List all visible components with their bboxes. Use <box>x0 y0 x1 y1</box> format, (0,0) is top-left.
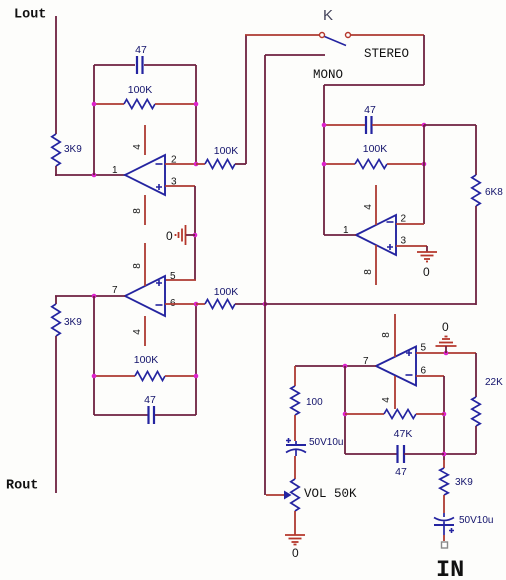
svg-text:0: 0 <box>166 229 173 243</box>
svg-text:8: 8 <box>132 263 143 269</box>
wire 100K mid left stub <box>196 163 205 165</box>
wire cap C3 row left <box>324 124 365 126</box>
wire cap to IN port <box>443 535 445 541</box>
svg-text:100K: 100K <box>128 84 153 96</box>
svg-text:47: 47 <box>135 44 147 56</box>
wire 3K9 to pin1 row <box>55 166 57 176</box>
svg-text:100K: 100K <box>134 354 159 366</box>
wire mono vertical <box>264 55 266 495</box>
op-amp U3 triangle <box>356 215 396 255</box>
svg-text:6K8: 6K8 <box>485 187 503 198</box>
resistor 3K9 (left lower) <box>52 304 60 336</box>
wire U3 pin8 stub <box>375 245 377 285</box>
wire wiper horizontal <box>266 494 285 496</box>
wire 100K box2 left stub <box>94 375 135 377</box>
wire 100K mid to corner <box>235 163 246 165</box>
wire cap47b row right <box>404 453 444 455</box>
wire box2 left vertical <box>93 296 95 415</box>
wire cap row to 6K8 <box>424 124 476 126</box>
wire pot to ground <box>294 511 296 535</box>
switch K left contact <box>320 33 325 38</box>
resistor 100 <box>291 386 299 415</box>
wire U3 pin3 lead <box>396 245 427 247</box>
svg-text:Lout: Lout <box>14 8 46 23</box>
wire cap C3 row right <box>372 124 424 126</box>
wire U1 pin2 lead <box>165 163 196 165</box>
wire mono stub <box>265 54 325 56</box>
node mix junction <box>263 302 268 307</box>
svg-text:47: 47 <box>395 466 407 478</box>
op-amp U3 plus input <box>387 244 393 250</box>
op-amp U2 plus input <box>156 280 162 286</box>
wire cap C2 row right <box>155 414 196 416</box>
svg-text:100: 100 <box>306 397 323 408</box>
wire pin6 vertical <box>443 376 445 460</box>
capacitor 47 box3 plates <box>366 116 372 134</box>
node pin7 junction <box>92 294 97 299</box>
wire 3K9c to cap <box>443 495 445 513</box>
svg-text:0: 0 <box>292 546 299 560</box>
node box3 cap left <box>322 123 327 128</box>
wire 3K9c top <box>443 460 445 468</box>
svg-text:3: 3 <box>401 236 407 247</box>
svg-text:0: 0 <box>423 265 430 279</box>
wire 100K box1 left stub <box>94 103 124 105</box>
wire pin5 row U2 <box>165 279 196 281</box>
capacitor 47 top-left plates <box>137 56 143 74</box>
wire U1 pin8 stub <box>144 195 146 225</box>
capacitor 47 box2 plates <box>149 406 155 424</box>
wire 6K8 top <box>475 125 477 175</box>
wire box3 left vertical <box>323 85 325 235</box>
capacitor 47 bottom plates <box>398 445 405 463</box>
wire Rout vertical <box>55 336 57 493</box>
wire pin5 row U4 <box>416 352 476 354</box>
ground down near U3 <box>426 246 428 252</box>
wire Lout vertical <box>55 16 57 134</box>
node cap47 right <box>442 452 447 457</box>
capacitor 50V10u left <box>286 444 306 446</box>
switch K right contact <box>346 33 351 38</box>
op-amp U1 plus input <box>156 184 162 190</box>
svg-text:47K: 47K <box>394 428 413 440</box>
wire fb left vertical <box>344 366 346 454</box>
wire U3 pin4 stub <box>375 185 377 225</box>
svg-text:Rout: Rout <box>6 479 38 494</box>
node 47K right <box>442 412 447 417</box>
wire 100K box3 left stub <box>324 163 355 165</box>
wire U4 pin4 stub <box>394 376 396 409</box>
wire 22K corner to cap row <box>445 453 476 455</box>
wire U2 pin8 stub <box>144 243 146 286</box>
op-amp U2 triangle <box>125 276 165 316</box>
svg-text:3K9: 3K9 <box>455 477 473 488</box>
resistor 6K8 <box>472 175 480 206</box>
wire pin3 vertical down <box>194 186 196 280</box>
wire switch-left horizontal <box>245 34 319 36</box>
svg-text:K: K <box>323 7 333 24</box>
svg-text:6: 6 <box>421 366 427 377</box>
wire switch right lead <box>351 34 424 36</box>
wire box1 left vertical <box>93 65 95 175</box>
op-amp U1 triangle <box>125 155 165 195</box>
op-amp U4 minus input <box>406 374 413 376</box>
resistor 3K9 (input) <box>440 468 448 495</box>
wire 100K box3 right stub <box>387 163 424 165</box>
node pin6 junction <box>194 302 199 307</box>
svg-text:47: 47 <box>364 104 376 116</box>
potentiometer VOL 50K <box>291 479 299 511</box>
svg-text:0: 0 <box>442 320 449 334</box>
svg-text:STEREO: STEREO <box>364 47 409 61</box>
svg-text:3K9: 3K9 <box>64 317 82 328</box>
wire 100K box2 right stub <box>165 375 196 377</box>
ground below pot <box>285 535 305 545</box>
op-amp U3 minus input <box>387 221 394 223</box>
wire U3 pin2 lead <box>396 223 424 225</box>
resistor 100K mid <box>205 160 235 169</box>
op-amp U4 plus input <box>406 350 412 356</box>
svg-text:100K: 100K <box>214 286 239 298</box>
wire stereo right vertical <box>423 35 425 85</box>
node box2 right <box>194 374 199 379</box>
svg-text:2: 2 <box>401 214 407 225</box>
ground left-pointing (0) near U1 <box>176 225 186 245</box>
wire pin1 row <box>55 174 125 176</box>
wire pin7 row <box>295 365 376 367</box>
wire cap C1 row left <box>94 64 135 66</box>
wire U2 pin4 stub <box>144 316 146 346</box>
svg-text:5: 5 <box>170 271 176 282</box>
wire box2 right vertical <box>195 304 197 415</box>
wire 100K out to node <box>235 303 265 305</box>
wire 100 top corner <box>294 366 296 386</box>
svg-text:8: 8 <box>381 332 392 338</box>
node box1 left <box>92 102 97 107</box>
resistor 47K <box>384 410 416 419</box>
resistor 100K mid-out <box>205 300 235 309</box>
wire U4 pin8 stub <box>394 314 396 357</box>
node pin1 junction <box>92 173 97 178</box>
svg-text:47: 47 <box>144 394 156 406</box>
svg-text:4: 4 <box>363 204 374 210</box>
svg-text:3K9: 3K9 <box>64 144 82 155</box>
svg-text:50V10u: 50V10u <box>309 437 343 448</box>
wire cap C2 row left <box>94 414 148 416</box>
op-amp U1 minus input <box>156 163 163 165</box>
node 47K left <box>343 412 348 417</box>
wire pin7 row <box>55 295 125 297</box>
wire 47K right stub <box>416 413 444 415</box>
resistor 100K box3 <box>355 160 387 169</box>
svg-text:1: 1 <box>112 165 118 176</box>
svg-text:7: 7 <box>112 285 118 296</box>
svg-text:100K: 100K <box>363 143 388 155</box>
resistor 3K9 (left upper) <box>52 134 60 166</box>
svg-text:IN: IN <box>436 557 464 580</box>
wire U2 pin6 lead <box>165 303 196 305</box>
node box2 left <box>92 374 97 379</box>
node box3 res left <box>322 162 327 167</box>
svg-text:VOL 50K: VOL 50K <box>304 487 357 501</box>
ground up near U4 <box>436 337 457 347</box>
node ground junction U1 <box>193 233 198 238</box>
wire box1 right vertical <box>195 65 197 164</box>
wire stereo horizontal <box>324 84 424 86</box>
resistor 100K box2 <box>135 372 165 381</box>
wire 100K out left stub <box>196 303 205 305</box>
svg-text:5: 5 <box>421 343 427 354</box>
capacitor 50V10u input <box>434 518 454 521</box>
svg-text:4: 4 <box>381 397 392 403</box>
op-amp U2 minus input <box>156 304 163 306</box>
port IN square <box>442 542 448 548</box>
wire cap47b row left <box>345 453 397 455</box>
wire mix to 6K8 horizontal <box>265 303 476 305</box>
wire to 3K9 lower <box>55 296 57 304</box>
wire 47K left stub <box>345 413 384 415</box>
wire cap to pot <box>294 456 296 479</box>
wire 22K top <box>475 353 477 397</box>
wire U1 pin4 stub <box>144 125 146 155</box>
node pin5 junction <box>444 351 449 356</box>
wire 100K box1 right stub <box>155 103 196 105</box>
wire U4 pin6 lead <box>416 375 444 377</box>
svg-text:8: 8 <box>363 269 374 275</box>
wire 100 to cap <box>294 415 296 441</box>
svg-text:4: 4 <box>132 329 143 335</box>
resistor 22K <box>472 397 480 426</box>
wire cap C1 row right <box>144 64 196 66</box>
op-amp U4 triangle <box>376 347 416 386</box>
svg-text:100K: 100K <box>214 145 239 157</box>
svg-text:8: 8 <box>132 208 143 214</box>
node box1 right <box>194 102 199 107</box>
wire U1 pin3 lead <box>165 185 195 187</box>
wiper arrow <box>284 491 292 500</box>
resistor 100K box1 <box>124 100 155 109</box>
node box3 cap right <box>422 123 427 128</box>
switch K lever <box>325 37 347 46</box>
wire switch-left vertical <box>245 35 247 164</box>
node pin2 junction <box>194 162 199 167</box>
wire 6K8 bottom <box>475 206 477 305</box>
svg-text:50V10u: 50V10u <box>459 515 493 526</box>
wire 22K bottom <box>475 426 477 454</box>
wire pin1 row U3 <box>324 234 356 236</box>
svg-text:4: 4 <box>132 144 143 150</box>
wire box3 right vertical <box>423 125 425 224</box>
node box3 res right <box>422 162 427 167</box>
svg-text:MONO: MONO <box>313 68 343 82</box>
svg-text:22K: 22K <box>485 377 503 388</box>
node pin7 junction <box>343 364 348 369</box>
